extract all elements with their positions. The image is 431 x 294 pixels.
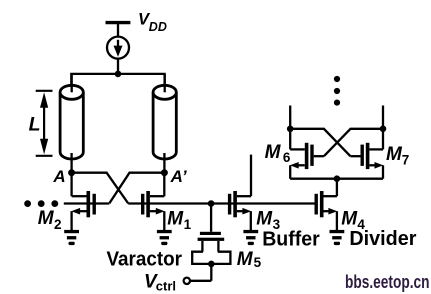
svg-text:M: M: [237, 249, 254, 270]
svg-text:1: 1: [184, 217, 192, 232]
svg-text:Buffer: Buffer: [262, 228, 320, 250]
svg-text:DD: DD: [149, 20, 167, 34]
svg-text:Divider: Divider: [349, 228, 416, 250]
svg-text:A’: A’: [170, 167, 187, 186]
svg-text:7: 7: [402, 152, 410, 167]
svg-text:M: M: [386, 144, 403, 165]
svg-text:L: L: [29, 114, 41, 136]
svg-text:M: M: [38, 208, 55, 229]
svg-text:bbs.eetop.cn: bbs.eetop.cn: [345, 272, 430, 292]
svg-text:M: M: [341, 209, 358, 230]
svg-text:M: M: [256, 208, 273, 229]
svg-text:5: 5: [254, 255, 262, 270]
svg-text:ctrl: ctrl: [156, 279, 176, 294]
svg-text:Varactor: Varactor: [107, 249, 183, 271]
svg-text:M: M: [265, 142, 282, 163]
svg-text:2: 2: [54, 217, 62, 232]
svg-text:A: A: [52, 167, 65, 186]
svg-text:6: 6: [283, 150, 291, 165]
svg-text:M: M: [167, 208, 184, 229]
